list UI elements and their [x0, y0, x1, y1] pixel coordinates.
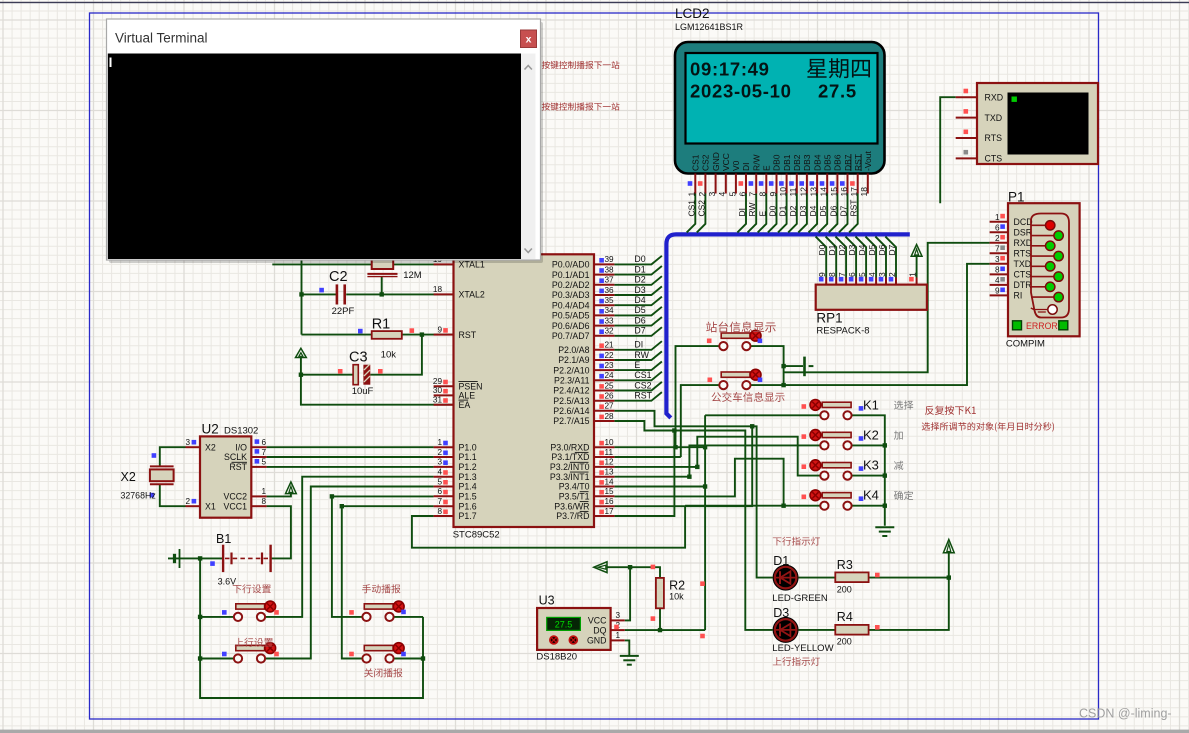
svg-text:14: 14 — [819, 187, 829, 197]
svg-text:12: 12 — [798, 187, 808, 197]
svg-text:RST: RST — [459, 330, 477, 340]
svg-text:D2: D2 — [788, 205, 798, 216]
svg-text:-Vout: -Vout — [863, 151, 873, 171]
svg-text:RESPACK-8: RESPACK-8 — [816, 326, 869, 337]
svg-text:D6: D6 — [877, 244, 887, 255]
svg-text:DS18B20: DS18B20 — [536, 652, 577, 663]
svg-text:SCLK: SCLK — [224, 452, 247, 462]
svg-text:2: 2 — [697, 192, 707, 197]
svg-text:21: 21 — [605, 341, 615, 350]
svg-text:11: 11 — [605, 448, 614, 457]
svg-text:D7: D7 — [887, 244, 897, 255]
svg-text:X2: X2 — [121, 470, 136, 484]
svg-text:10: 10 — [605, 438, 615, 447]
svg-text:P2.1/A9: P2.1/A9 — [558, 355, 589, 365]
svg-text:K2: K2 — [863, 427, 879, 442]
svg-text:10k: 10k — [669, 592, 684, 602]
svg-text:D5: D5 — [867, 244, 877, 255]
svg-text:4: 4 — [995, 276, 1000, 285]
svg-text:VCC: VCC — [721, 153, 731, 171]
svg-text:DB6: DB6 — [833, 154, 843, 171]
svg-text:26: 26 — [605, 392, 615, 401]
svg-text:P0.0/AD0: P0.0/AD0 — [552, 260, 590, 270]
svg-text:P3.6/WR: P3.6/WR — [554, 501, 589, 511]
svg-text:P3.4/T0: P3.4/T0 — [559, 482, 590, 492]
svg-text:10k: 10k — [381, 350, 397, 361]
svg-text:27.5: 27.5 — [555, 620, 573, 630]
svg-text:P0.2/AD2: P0.2/AD2 — [552, 280, 590, 290]
svg-text:P0.1/AD1: P0.1/AD1 — [552, 270, 590, 280]
svg-text:X1: X1 — [205, 501, 216, 511]
svg-text:18: 18 — [859, 187, 869, 197]
svg-text:E: E — [762, 165, 772, 171]
svg-text:D3: D3 — [634, 285, 645, 295]
svg-text:DS1302: DS1302 — [224, 426, 258, 437]
svg-text:DQ: DQ — [593, 625, 606, 635]
svg-text:LCD2: LCD2 — [675, 6, 710, 21]
svg-text:5: 5 — [727, 192, 737, 197]
svg-text:3: 3 — [185, 438, 190, 447]
svg-text:P2.3/A11: P2.3/A11 — [554, 376, 590, 386]
svg-text:RST: RST — [634, 391, 652, 401]
svg-text:P3.1/TXD: P3.1/TXD — [551, 452, 589, 462]
svg-text:14: 14 — [605, 477, 615, 486]
svg-text:38: 38 — [605, 265, 615, 274]
svg-text:1: 1 — [262, 487, 267, 496]
svg-text:DTR: DTR — [1014, 280, 1032, 290]
svg-text:Virtual Terminal: Virtual Terminal — [115, 31, 208, 46]
svg-text:3: 3 — [616, 611, 621, 620]
svg-text:8: 8 — [827, 272, 837, 277]
svg-text:GND: GND — [711, 152, 721, 171]
svg-text:DB3: DB3 — [802, 154, 812, 171]
svg-text:8: 8 — [758, 192, 768, 197]
svg-text:P0.7/AD7: P0.7/AD7 — [552, 331, 590, 341]
svg-text:P3.0/RXD: P3.0/RXD — [550, 442, 589, 452]
svg-text:3: 3 — [877, 272, 887, 277]
svg-text:D2: D2 — [634, 275, 645, 285]
svg-text:CTS: CTS — [1014, 270, 1032, 280]
svg-text:P1.7: P1.7 — [459, 511, 477, 521]
svg-text:D4: D4 — [857, 244, 867, 255]
svg-text:P3.5/T1: P3.5/T1 — [559, 492, 590, 502]
svg-text:C2: C2 — [329, 269, 348, 285]
svg-text:39: 39 — [605, 255, 615, 264]
svg-text:P0.3/AD3: P0.3/AD3 — [552, 290, 590, 300]
svg-text:P1.6: P1.6 — [459, 501, 477, 511]
svg-text:CS2: CS2 — [701, 154, 711, 171]
svg-text:D7: D7 — [634, 326, 645, 336]
svg-text:4: 4 — [717, 192, 727, 197]
svg-text:8: 8 — [995, 266, 1000, 275]
svg-text:15: 15 — [829, 187, 839, 197]
svg-text:25: 25 — [605, 381, 615, 390]
svg-text:6: 6 — [737, 192, 747, 197]
svg-text:STC89C52: STC89C52 — [453, 530, 500, 541]
svg-text:D2: D2 — [837, 244, 847, 255]
svg-text:P0.4/AD4: P0.4/AD4 — [552, 300, 590, 310]
svg-text:16: 16 — [839, 187, 849, 197]
svg-text:RST: RST — [849, 200, 859, 217]
svg-text:7: 7 — [837, 272, 847, 277]
svg-text:DCD: DCD — [1014, 217, 1033, 227]
svg-text:R4: R4 — [837, 610, 853, 624]
svg-text:DB4: DB4 — [812, 154, 822, 171]
svg-text:RXD: RXD — [985, 92, 1004, 102]
svg-text:7: 7 — [748, 192, 758, 197]
svg-text:12: 12 — [605, 458, 615, 467]
svg-text:CS1: CS1 — [634, 370, 651, 380]
svg-text:K3: K3 — [863, 458, 879, 473]
svg-text:RW: RW — [634, 350, 649, 360]
svg-text:RTS: RTS — [1014, 249, 1032, 259]
svg-text:9: 9 — [817, 272, 827, 277]
svg-text:2: 2 — [995, 234, 1000, 243]
svg-text:U2: U2 — [202, 422, 219, 437]
svg-text:GND: GND — [587, 636, 607, 646]
svg-text:CSDN @-liming-: CSDN @-liming- — [1079, 707, 1172, 721]
svg-text:4: 4 — [437, 468, 442, 477]
svg-text:27: 27 — [605, 402, 615, 411]
svg-text:7: 7 — [995, 245, 1000, 254]
svg-text:R/W: R/W — [751, 154, 761, 171]
svg-text:D3: D3 — [847, 244, 857, 255]
svg-text:E: E — [634, 360, 640, 370]
svg-text:VCC: VCC — [588, 616, 607, 626]
svg-text:CS2: CS2 — [696, 200, 706, 217]
svg-text:P3.2/INT0: P3.2/INT0 — [550, 462, 590, 472]
svg-text:R2: R2 — [669, 579, 685, 593]
svg-text:32768Hz: 32768Hz — [121, 491, 156, 501]
svg-text:9: 9 — [768, 192, 778, 197]
svg-text:RP1: RP1 — [816, 311, 842, 326]
svg-text:P1.2: P1.2 — [459, 462, 477, 472]
svg-text:P0.5/AD5: P0.5/AD5 — [552, 311, 590, 321]
svg-text:37: 37 — [605, 276, 615, 285]
svg-text:RST: RST — [229, 462, 247, 472]
svg-text:DB5: DB5 — [823, 154, 833, 171]
svg-text:P2.6/A14: P2.6/A14 — [553, 406, 589, 416]
svg-text:P1.0: P1.0 — [459, 442, 477, 452]
svg-text:DI: DI — [737, 208, 747, 217]
svg-text:LED-GREEN: LED-GREEN — [772, 593, 828, 604]
svg-text:30: 30 — [433, 386, 443, 395]
svg-text:D3: D3 — [798, 205, 808, 216]
svg-text:DB1: DB1 — [782, 154, 792, 171]
svg-text:CS1: CS1 — [691, 154, 701, 171]
svg-text:200: 200 — [837, 585, 852, 595]
svg-text:1: 1 — [437, 438, 442, 447]
svg-text:18: 18 — [433, 285, 443, 294]
svg-text:x: x — [526, 34, 532, 46]
svg-text:D1: D1 — [634, 264, 645, 274]
svg-text:31: 31 — [433, 396, 443, 405]
svg-text:1: 1 — [995, 213, 1000, 222]
svg-text:D0: D0 — [634, 254, 645, 264]
svg-text:10uF: 10uF — [352, 386, 374, 397]
svg-text:DSR: DSR — [1014, 227, 1033, 237]
svg-text:D0: D0 — [768, 205, 778, 216]
svg-text:17: 17 — [605, 507, 615, 516]
svg-text:LGM12641BS1R: LGM12641BS1R — [675, 22, 744, 32]
svg-text:DI: DI — [634, 340, 643, 350]
svg-text:3: 3 — [995, 255, 1000, 264]
svg-text:6: 6 — [847, 272, 857, 277]
svg-text:DB0: DB0 — [772, 154, 782, 171]
svg-text:11: 11 — [788, 187, 798, 196]
svg-text:P2.7/A15: P2.7/A15 — [553, 416, 589, 426]
svg-text:D4: D4 — [808, 205, 818, 216]
svg-text:DB2: DB2 — [792, 154, 802, 171]
svg-text:13: 13 — [809, 187, 819, 197]
svg-text:D7: D7 — [839, 205, 849, 216]
svg-text:B1: B1 — [216, 532, 231, 546]
svg-text:D1: D1 — [827, 244, 837, 255]
svg-text:9: 9 — [995, 287, 1000, 296]
svg-text:E: E — [757, 211, 767, 217]
svg-text:P1.5: P1.5 — [459, 492, 477, 502]
svg-text:P0.6/AD6: P0.6/AD6 — [552, 321, 590, 331]
svg-text:5: 5 — [857, 272, 867, 277]
svg-text:22PF: 22PF — [332, 306, 355, 317]
svg-text:D6: D6 — [634, 315, 645, 325]
svg-text:2: 2 — [185, 497, 190, 506]
svg-text:17: 17 — [849, 187, 859, 197]
svg-text:D3: D3 — [773, 606, 789, 620]
svg-text:D5: D5 — [818, 205, 828, 216]
svg-text:VCC1: VCC1 — [224, 501, 248, 511]
svg-text:P2.2/A10: P2.2/A10 — [553, 365, 589, 375]
svg-text:29: 29 — [433, 377, 443, 386]
svg-text:7: 7 — [437, 497, 442, 506]
svg-text:8: 8 — [262, 497, 267, 506]
svg-text:C3: C3 — [349, 350, 368, 366]
svg-text:K1: K1 — [863, 397, 879, 412]
svg-text:DI: DI — [741, 163, 751, 172]
svg-text:10: 10 — [778, 187, 788, 197]
svg-text:5: 5 — [437, 477, 442, 486]
svg-text:6: 6 — [262, 438, 267, 447]
svg-text:28: 28 — [605, 412, 615, 421]
svg-text:P2.0/A8: P2.0/A8 — [558, 345, 589, 355]
svg-text:TXD: TXD — [985, 113, 1003, 123]
svg-text:1: 1 — [616, 631, 621, 640]
svg-text:P2.4/A12: P2.4/A12 — [553, 386, 589, 396]
svg-text:1: 1 — [687, 192, 697, 197]
svg-text:R3: R3 — [837, 558, 853, 572]
svg-text:24: 24 — [605, 371, 615, 380]
svg-text:D4: D4 — [634, 295, 645, 305]
svg-text:8: 8 — [437, 507, 442, 516]
svg-text:TXD: TXD — [1014, 259, 1032, 269]
svg-text:P1.1: P1.1 — [459, 452, 477, 462]
svg-text:15: 15 — [605, 487, 615, 496]
svg-text:P3.3/INT1: P3.3/INT1 — [550, 472, 590, 482]
svg-text:ERROR: ERROR — [1026, 321, 1058, 331]
svg-text:12M: 12M — [403, 270, 422, 281]
svg-text:6: 6 — [437, 487, 442, 496]
svg-text:RTS: RTS — [985, 133, 1003, 143]
svg-text:5: 5 — [262, 458, 267, 467]
svg-text:P2.5/A13: P2.5/A13 — [553, 396, 589, 406]
svg-text:27.5: 27.5 — [818, 81, 857, 102]
svg-text:D6: D6 — [828, 205, 838, 216]
svg-text:COMPIM: COMPIM — [1006, 339, 1045, 350]
svg-text:2: 2 — [437, 448, 442, 457]
svg-text:13: 13 — [605, 468, 615, 477]
svg-text:P3.7/RD: P3.7/RD — [556, 511, 589, 521]
svg-text:3: 3 — [707, 192, 717, 197]
svg-text:CS2: CS2 — [634, 380, 651, 390]
svg-text:2023-05-10: 2023-05-10 — [690, 81, 792, 102]
svg-text:I/O: I/O — [235, 442, 247, 452]
svg-text:P1.4: P1.4 — [459, 482, 477, 492]
svg-text:R1: R1 — [372, 317, 391, 333]
svg-text:VCC2: VCC2 — [224, 492, 248, 502]
svg-text:D1: D1 — [773, 554, 789, 568]
svg-text:LED-YELLOW: LED-YELLOW — [772, 643, 833, 654]
svg-text:200: 200 — [837, 637, 852, 647]
svg-text:CS1: CS1 — [686, 200, 696, 217]
svg-text:09:17:49: 09:17:49 — [690, 59, 770, 80]
svg-text:33: 33 — [605, 316, 615, 325]
svg-text:7: 7 — [262, 448, 267, 457]
svg-text:4: 4 — [867, 272, 877, 277]
svg-text:P1.3: P1.3 — [459, 472, 477, 482]
svg-text:X2: X2 — [205, 442, 216, 452]
svg-text:35: 35 — [605, 296, 615, 305]
svg-text:6: 6 — [995, 223, 1000, 232]
svg-text:3: 3 — [437, 458, 442, 467]
svg-text:D5: D5 — [634, 305, 645, 315]
svg-text:RXD: RXD — [1014, 238, 1033, 248]
svg-text:RW: RW — [747, 202, 757, 216]
svg-text:32: 32 — [605, 327, 615, 336]
svg-text:36: 36 — [605, 286, 615, 295]
svg-text:22: 22 — [605, 351, 615, 360]
svg-text:2: 2 — [887, 272, 897, 277]
svg-text:V0: V0 — [731, 160, 741, 171]
svg-text:9: 9 — [437, 325, 442, 334]
svg-text:RI: RI — [1014, 291, 1023, 301]
svg-text:34: 34 — [605, 306, 615, 315]
svg-text:1: 1 — [907, 272, 917, 277]
svg-text:16: 16 — [605, 497, 615, 506]
svg-text:23: 23 — [605, 361, 615, 370]
svg-text:K4: K4 — [863, 488, 879, 503]
svg-text:XTAL2: XTAL2 — [459, 290, 485, 300]
svg-text:CTS: CTS — [985, 154, 1003, 164]
svg-text:U3: U3 — [539, 594, 555, 608]
svg-text:EA: EA — [459, 400, 471, 410]
svg-text:D0: D0 — [817, 244, 827, 255]
svg-text:D1: D1 — [778, 205, 788, 216]
